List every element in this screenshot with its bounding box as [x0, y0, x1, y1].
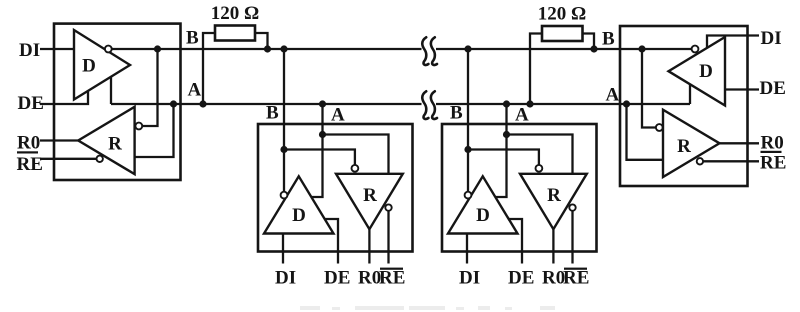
- svg-text:R0: R0: [358, 268, 381, 289]
- wire DI pin U2: [282, 234, 284, 264]
- wire DE input U4: [725, 88, 759, 90]
- svg-text:DE: DE: [18, 93, 44, 114]
- wire bus line B right segment: [436, 48, 692, 50]
- caption fragment (cut off at bottom): [300, 306, 555, 310]
- bubble receiver input B U4: [656, 124, 663, 131]
- svg-text:R0: R0: [761, 133, 784, 154]
- svg-text:B: B: [450, 103, 463, 124]
- svg-text:120 Ω: 120 Ω: [211, 3, 259, 24]
- node U3 at A: [503, 100, 510, 107]
- transceiver U1 box left: [54, 24, 181, 180]
- wire DI pin U3: [466, 234, 468, 264]
- node RT2 at A: [526, 100, 533, 107]
- wire receiver input B tap U4: [642, 49, 656, 128]
- svg-text:120 Ω: 120 Ω: [538, 4, 586, 25]
- svg-text:A: A: [188, 80, 202, 101]
- node B internal U2: [280, 146, 287, 153]
- bubble RE input U2: [385, 204, 391, 210]
- node U2 at B: [280, 45, 287, 52]
- label RE overbar U3: [564, 268, 587, 270]
- wire receiver input A tap U4: [627, 104, 664, 160]
- wire B drop U2: [283, 49, 285, 192]
- svg-text:A: A: [606, 85, 620, 106]
- label RE bar U4: [761, 151, 782, 153]
- wire RT1 right lead to line B: [255, 33, 268, 49]
- svg-text:B: B: [186, 28, 199, 49]
- node A internal U2: [319, 131, 326, 138]
- node U3 at B: [464, 45, 471, 52]
- bubble driver output B U4: [692, 46, 699, 53]
- driver D U3: [448, 176, 518, 233]
- bubble RE input U3: [569, 204, 575, 210]
- driver D U2: [264, 176, 334, 233]
- driver D U1: [74, 30, 130, 100]
- wire receiver input A tap U1: [135, 104, 174, 157]
- svg-text:R: R: [108, 134, 122, 155]
- bubble driver output B U3: [465, 192, 472, 199]
- wire bus line A left segment: [111, 103, 422, 105]
- wire DE pin U3: [509, 219, 522, 264]
- resistor RT2 120 ohm termination right: [542, 26, 583, 41]
- wire A drop U3: [495, 104, 506, 197]
- node A internal U4: [623, 100, 630, 107]
- resistor RT1 120 ohm termination left: [215, 26, 255, 41]
- wire receiver input B tap U3: [468, 150, 539, 165]
- wire DE input U1: [40, 91, 88, 104]
- svg-text:RE: RE: [760, 153, 786, 174]
- receiver R U2: [336, 174, 403, 229]
- receiver R U3: [520, 174, 587, 229]
- wire receiver input B tap U2: [284, 150, 355, 165]
- wire receiver input B tap U1: [142, 49, 157, 126]
- svg-text:D: D: [82, 55, 96, 76]
- wire RE input U1: [40, 158, 96, 160]
- svg-text:B: B: [602, 29, 615, 50]
- svg-text:RE: RE: [379, 268, 405, 289]
- node B internal U4: [638, 45, 645, 52]
- wire RE input U4: [703, 160, 759, 162]
- svg-text:R: R: [363, 185, 377, 206]
- bubble RE input U4: [697, 158, 703, 164]
- wire R0 pin U3: [552, 229, 554, 263]
- wire bus line B left segment: [111, 48, 421, 50]
- transceiver U4 box right: [620, 26, 748, 186]
- label RE overbar U2: [380, 268, 403, 270]
- svg-text:B: B: [266, 103, 279, 124]
- bubble receiver input B U1: [135, 123, 142, 130]
- break mark on line B: [422, 37, 437, 65]
- wire R0 pin U2: [368, 229, 370, 263]
- driver D U4: [669, 37, 726, 106]
- svg-text:DI: DI: [275, 268, 296, 289]
- wire bus line A right segment: [436, 103, 690, 105]
- svg-text:DE: DE: [508, 268, 534, 289]
- svg-text:DE: DE: [324, 268, 350, 289]
- wire receiver input A tap U2: [323, 135, 389, 174]
- node A internal U1: [170, 100, 177, 107]
- bubble receiver input B U3: [536, 165, 543, 172]
- node B internal U3: [464, 146, 471, 153]
- wire RT1 left lead to line A: [203, 33, 215, 104]
- node RT1 at B: [264, 45, 271, 52]
- svg-text:R0: R0: [17, 133, 40, 154]
- svg-text:DI: DI: [761, 28, 782, 49]
- wire driver output A stub U4: [689, 84, 691, 104]
- wire R0 output U1: [40, 139, 78, 141]
- node RT1 at A: [199, 100, 206, 107]
- svg-text:A: A: [515, 105, 529, 126]
- bubble receiver input B U2: [352, 165, 359, 172]
- svg-text:RE: RE: [563, 268, 589, 289]
- wire DE pin U2: [325, 219, 338, 264]
- svg-text:DI: DI: [459, 268, 480, 289]
- wire driver output A stub U1: [110, 77, 112, 105]
- svg-text:R: R: [677, 136, 691, 157]
- receiver R U1: [78, 107, 134, 174]
- svg-text:DE: DE: [760, 78, 786, 99]
- svg-text:R: R: [547, 185, 561, 206]
- svg-text:A: A: [331, 105, 345, 126]
- wire B drop U3: [467, 49, 469, 192]
- wire RE pin U3: [571, 211, 573, 264]
- bubble driver output B U1: [105, 46, 112, 53]
- wire RE pin U2: [387, 211, 389, 264]
- svg-text:R0: R0: [542, 268, 565, 289]
- svg-text:RE: RE: [17, 154, 43, 175]
- node RT2 at B: [590, 45, 597, 52]
- wire RT2 left lead to line A: [530, 34, 542, 105]
- wire DI input U4: [707, 36, 759, 48]
- break mark on line A: [422, 91, 437, 119]
- svg-text:DI: DI: [19, 40, 40, 61]
- receiver R U4: [663, 110, 720, 177]
- svg-text:D: D: [699, 61, 713, 82]
- node B internal U1: [154, 45, 161, 52]
- wire RT2 right lead to line B: [583, 34, 595, 50]
- node A internal U3: [503, 131, 510, 138]
- transceiver U3 box lower mid-right: [442, 45, 597, 288]
- wire DI input U1: [40, 48, 74, 50]
- transceiver U2 box lower mid-left: [258, 45, 413, 288]
- svg-text:D: D: [476, 205, 490, 226]
- bubble RE input U1: [97, 156, 103, 162]
- svg-text:D: D: [292, 205, 306, 226]
- wire R0 output U4: [720, 142, 760, 144]
- wire receiver input A tap U3: [507, 135, 573, 174]
- node U2 at A: [319, 100, 326, 107]
- wire A drop U2: [311, 104, 322, 197]
- bubble driver output B U2: [281, 192, 288, 199]
- label RE bar U1: [17, 151, 38, 153]
